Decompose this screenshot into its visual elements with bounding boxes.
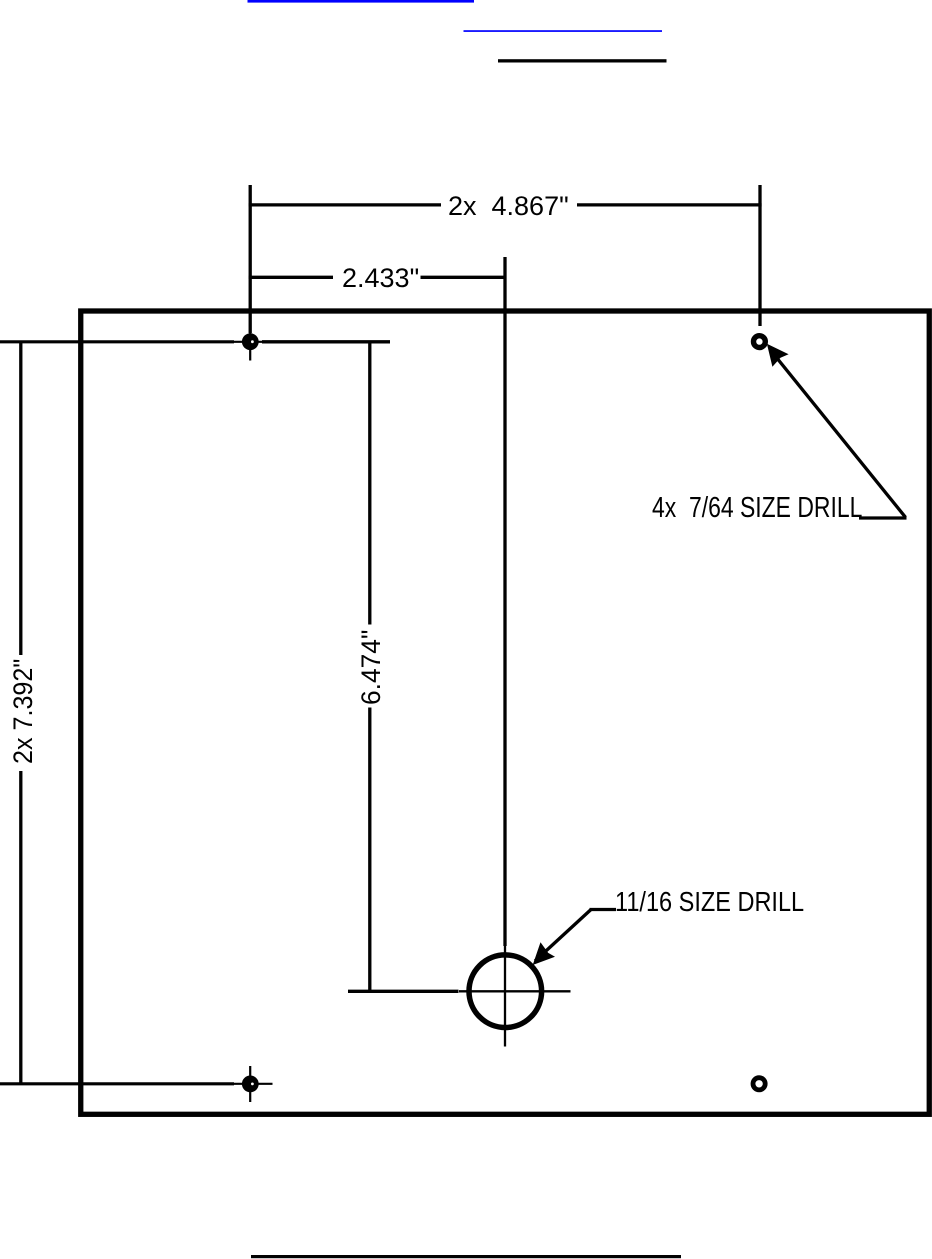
note text 11/16 SIZE DRILL: [615, 888, 804, 916]
dimension line 2x 7.392 upper segment: [19, 342, 22, 655]
dimension text 2x 4.867: [448, 193, 569, 220]
leader 4x 7/64 SIZE DRILL: diagonal: [770, 350, 906, 518]
dimension line 6.474 upper segment: [368, 342, 371, 625]
leader 11/16 SIZE DRILL: diagonal: [535, 910, 591, 962]
dimension line 2.433 left segment: [249, 276, 333, 279]
dimension line 2x 4.867 left segment: [249, 203, 441, 206]
big hole 11/16 drill: [469, 955, 542, 1028]
dimension text 2x 7.392 (rotated): [10, 659, 37, 764]
footer rule (black): [251, 1255, 681, 1258]
hole bottom-right (7/64 drill, open): [753, 1078, 765, 1090]
extension line right hole vertical (x=760): [758, 185, 761, 326]
extension line bottom-left hole to left edge (y=1084): [0, 1082, 234, 1085]
extension line big hole to 6.474 dim (y=991): [348, 990, 459, 993]
dimension line 2.433 right segment: [421, 276, 507, 279]
centerline of big hole (x=505): [503, 257, 506, 946]
header rule (black): [498, 59, 667, 62]
hole top-left (7/64 drill, filled): [242, 333, 259, 350]
dimension text 2.433: [342, 265, 419, 292]
extension line top-left hole to left edge (y=342): [0, 340, 234, 343]
dimension line 2x 4.867 right segment: [577, 203, 762, 206]
leader 11/16 SIZE DRILL: arrowhead: [533, 942, 555, 965]
dimension line 6.474 lower segment: [368, 708, 371, 992]
hole top-right (7/64 drill, open): [754, 336, 766, 348]
hole bottom-left (7/64 drill, filled): [242, 1076, 259, 1093]
leader 4x 7/64 SIZE DRILL: elbow: [859, 516, 907, 519]
center mark big hole: [459, 946, 571, 1047]
dimension text 6.474 (rotated): [358, 630, 385, 705]
header link underline (blue, top): [248, 0, 475, 3]
extension line left hole vertical (x=250): [249, 185, 252, 333]
panel outline (drill template plate): [81, 311, 930, 1114]
note text 4x 7/64 SIZE DRILL: [652, 494, 862, 523]
dimension line 2x 7.392 lower segment: [19, 771, 22, 1084]
extension line top-left hole to 6.474 dim (y=342): [262, 340, 390, 343]
center mark top-left hole: [232, 323, 273, 361]
center mark bottom-left hole: [232, 1066, 273, 1102]
leader 4x 7/64 SIZE DRILL: arrowhead: [767, 344, 789, 367]
leader 11/16 SIZE DRILL: elbow: [590, 908, 617, 911]
header link underline 2 (thin blue): [464, 30, 663, 32]
